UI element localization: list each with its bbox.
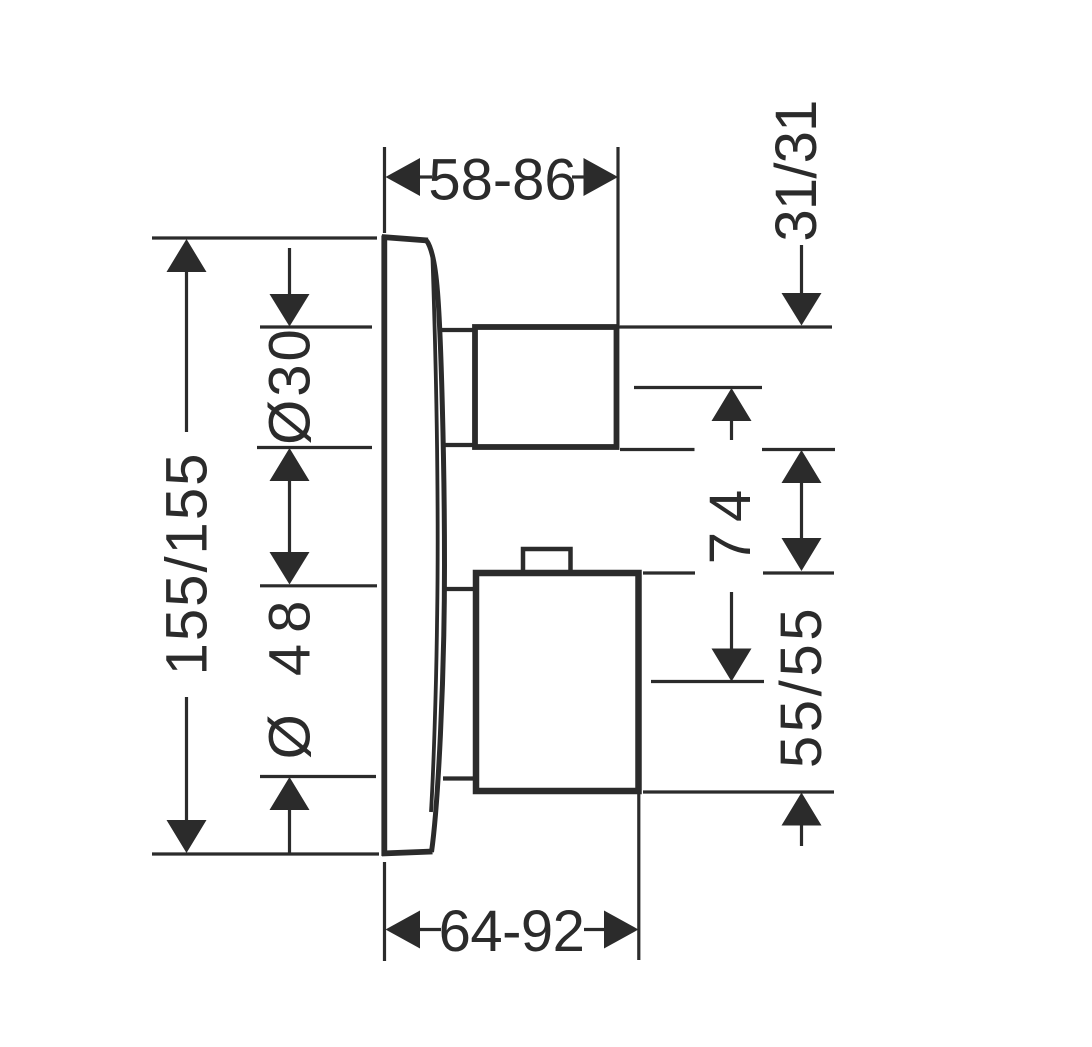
dimension 31/31 up arrow	[782, 450, 822, 483]
lower handle stem top line	[443, 587, 475, 591]
dimension 64-92 left tick	[419, 928, 441, 931]
svg-text:55/55: 55/55	[769, 605, 834, 768]
extension line 155/155 top reference	[152, 236, 377, 239]
dimension 55/55 lower stem	[800, 824, 803, 846]
svg-text:74: 74	[698, 480, 763, 565]
svg-text:31/31: 31/31	[764, 100, 829, 241]
dimension 74 up arrow	[712, 388, 752, 421]
escutcheon plate top edge	[382, 237, 428, 241]
extension line 64-92 right	[637, 794, 640, 960]
dimension 155/155 upper stem	[185, 271, 188, 432]
escutcheon plate inner right curve	[431, 258, 438, 812]
dimension 31/31 down arrow	[782, 293, 822, 326]
extension line bottom of upper handle left segment	[620, 448, 695, 451]
extension line O30 top	[260, 325, 372, 328]
dimension 58-86 left tick	[419, 175, 432, 178]
extension line bottom of lower handle	[643, 790, 834, 793]
dimension 155/155 up arrow	[167, 239, 207, 272]
svg-text:Ø30: Ø30	[258, 326, 323, 445]
extension line top of upper handle	[616, 325, 832, 328]
lower handle top tab	[523, 549, 571, 575]
dimension O30 up arrow	[270, 448, 310, 481]
dimension 31/31 upper stem	[800, 245, 803, 293]
dimension 55/55 up arrow	[782, 793, 822, 826]
dimension 155/155 lower stem	[185, 697, 188, 822]
lower handle body	[476, 573, 639, 791]
dimension 55/55 down arrow	[782, 538, 822, 571]
extension line 74 bottom (lower handle axis)	[651, 680, 764, 683]
extension line 74 top (upper handle axis)	[634, 386, 762, 389]
extension line top of lower handle right segment	[763, 571, 834, 574]
svg-text:Ø 48: Ø 48	[258, 590, 323, 760]
dimension 64-92 left arrow	[386, 911, 421, 949]
upper handle stem bottom line	[441, 443, 474, 447]
dimension 74 lower stem	[730, 592, 733, 649]
extension line O48 top	[260, 584, 377, 587]
extension line 58-86 right	[616, 147, 619, 325]
extension line 58-86 left	[383, 147, 386, 233]
upper handle body	[475, 327, 617, 447]
dimension O30 down arrow	[270, 294, 310, 327]
dimension 58-86 left arrow	[386, 158, 421, 196]
dimension 74 upper stem	[730, 420, 733, 440]
extension line bottom of upper handle right segment	[762, 448, 835, 451]
extension line O30 bottom	[257, 446, 372, 449]
lower handle stem bottom line	[443, 776, 475, 780]
dimension O30 upper stem	[288, 248, 291, 295]
extension line top of lower handle left segment	[643, 571, 695, 574]
shared stem between 31/31 and 55/55	[800, 482, 803, 539]
dimension O48 up arrow	[270, 777, 310, 810]
dimension O48 down arrow	[270, 552, 310, 585]
dimension 64-92 right arrow	[604, 911, 639, 949]
svg-text:58-86: 58-86	[428, 148, 576, 213]
escutcheon plate outer right curve	[427, 241, 445, 853]
dimension 155/155 down arrow	[167, 820, 207, 853]
extension line O48 bottom	[260, 775, 376, 778]
dimension O48 lower stem	[288, 809, 291, 853]
dimension 58-86 right tick	[572, 175, 584, 178]
svg-text:64-92: 64-92	[439, 899, 585, 964]
shared stem between O30 and O48	[288, 480, 291, 552]
dimension 64-92 right tick	[584, 928, 605, 931]
escutcheon plate bottom edge	[382, 852, 433, 854]
extension line 155/155 bottom reference	[152, 852, 379, 855]
escutcheon plate left edge	[381, 236, 387, 857]
upper handle stem top line	[441, 328, 474, 332]
dimension 74 down arrow	[712, 649, 752, 682]
svg-text:155/155: 155/155	[155, 452, 220, 676]
extension line 64-92 left	[383, 862, 386, 961]
dimension 58-86 right arrow	[584, 158, 619, 196]
